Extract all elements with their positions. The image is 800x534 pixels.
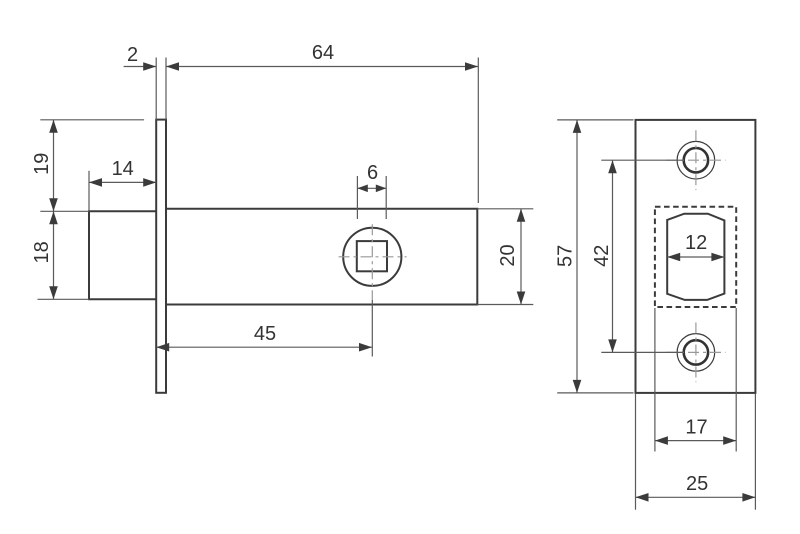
spindle square hole [357,241,387,271]
svg-text:2: 2 [127,44,138,66]
svg-text:45: 45 [254,323,276,345]
svg-text:64: 64 [312,42,334,64]
dashed cutout rectangle [655,207,736,307]
bottom screw hole outer circle [677,334,715,372]
svg-text:17: 17 [685,416,707,438]
bottom screw hole inner circle [684,340,708,364]
svg-text:14: 14 [112,158,134,180]
dimension 20 (body height) [477,209,533,305]
svg-text:18: 18 [31,241,53,263]
bolt face front view [667,214,724,300]
bottom screw hole centerlines [666,323,726,383]
dimension 57 (faceplate height) [555,120,634,393]
top screw hole centerlines [666,130,726,190]
svg-text:19: 19 [31,153,53,175]
extension line faceplate top (for 19) [40,119,144,121]
svg-text:57: 57 [555,245,577,267]
top screw hole inner circle [684,148,708,172]
extension line bolt top (for 14/18/19) [40,210,89,212]
svg-text:42: 42 [591,245,613,267]
dimension 6 (spindle square) [357,162,386,219]
svg-text:25: 25 [686,473,708,495]
latch bolt side view [89,211,156,299]
dimension 64 (body length) [166,42,478,203]
faceplate side view [156,120,166,393]
latch body side view [166,209,477,305]
extension line bolt bottom (for 18) [38,298,90,300]
spindle centerline horizontal [339,256,407,258]
extension line bottom hole (for 42) [601,351,683,353]
dimension 17 (cutout width) [655,308,736,452]
dimension 2 (faceplate thickness) [124,44,166,120]
dimension 18 (bolt height) [31,211,58,299]
faceplate front view [636,120,756,393]
spindle centerline vertical [371,224,373,300]
dimension 19 (faceplate top to bolt top) [31,120,58,212]
top screw hole outer circle [677,141,715,179]
svg-text:20: 20 [497,244,519,266]
spindle hub circle [343,228,401,286]
dimension 25 (faceplate width) [636,394,756,510]
extension line spindle center down (for 45) [371,300,373,357]
svg-text:6: 6 [367,162,378,184]
dimension 42 (screw hole spacing) [591,160,617,352]
svg-text:12: 12 [685,232,707,254]
dimension 12 (bolt face width) [667,232,724,261]
extension line top hole (for 42) [601,159,683,161]
dimension 14 (bolt protrusion) [89,158,156,211]
dimension 45 (backset) [156,323,372,352]
